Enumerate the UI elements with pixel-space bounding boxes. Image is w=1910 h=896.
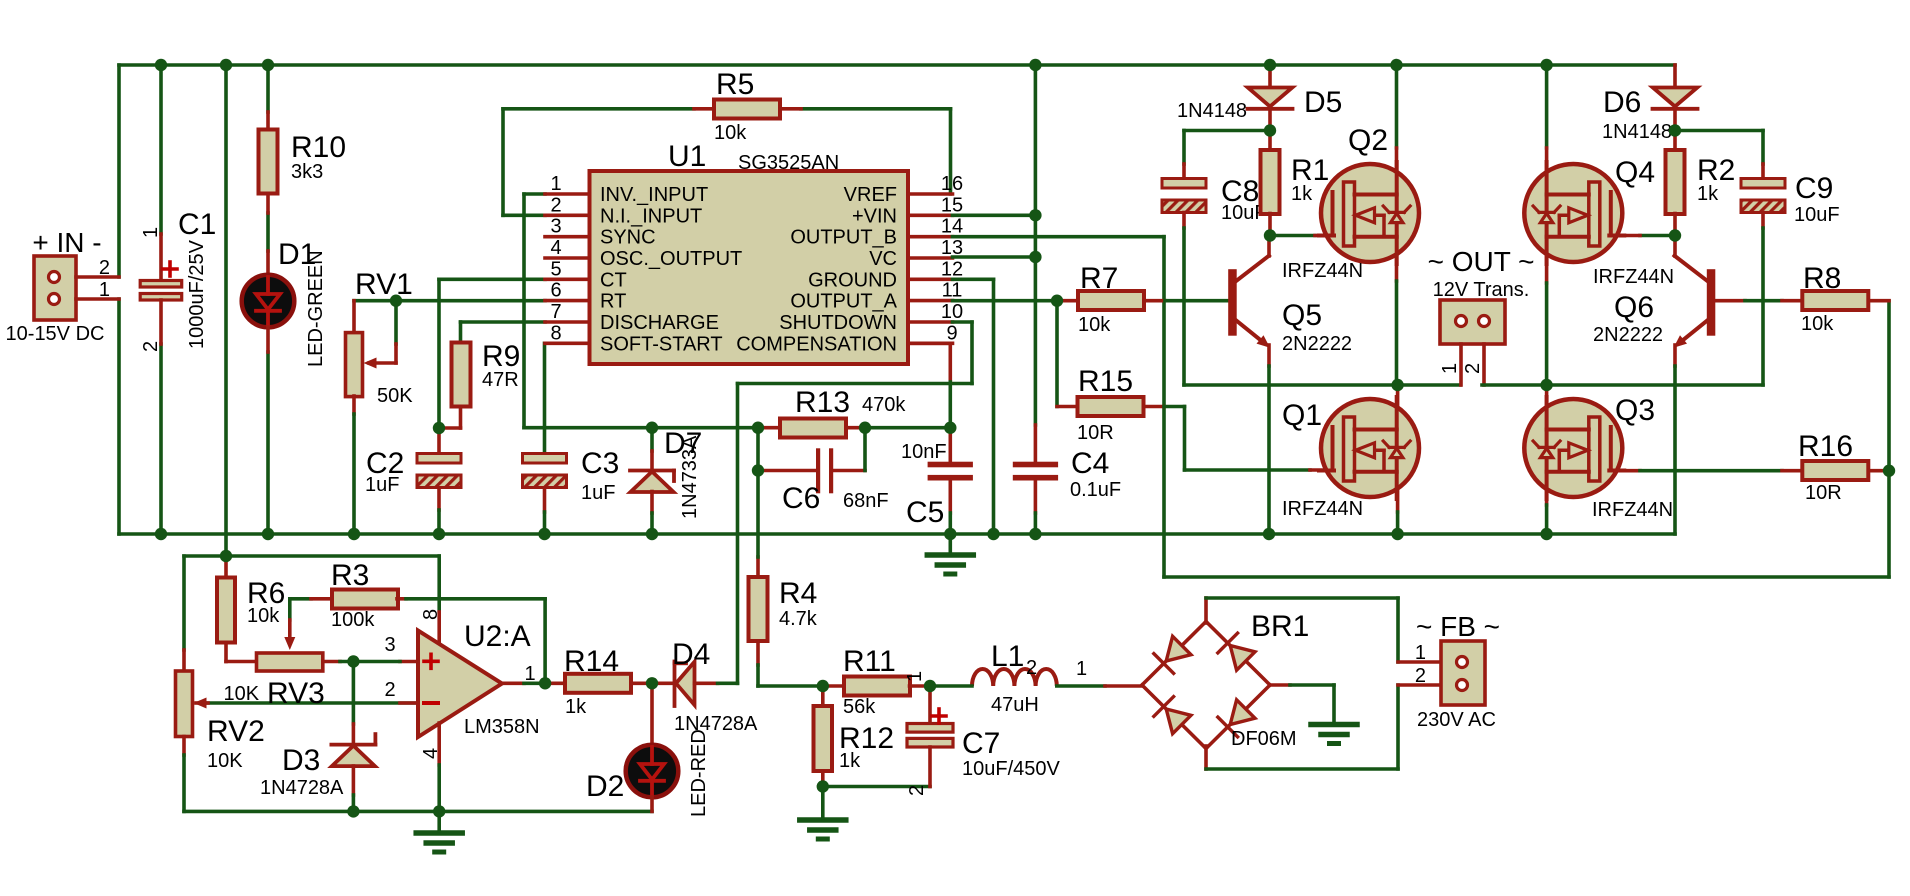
svg-text:BR1: BR1 (1251, 610, 1309, 643)
wire (801, 107, 951, 111)
wire (736, 384, 740, 684)
wire (1182, 164, 1186, 179)
svg-text:DISCHARGE: DISCHARGE (600, 312, 719, 334)
wire (1034, 481, 1038, 514)
wire (502, 681, 524, 685)
wire (543, 489, 547, 512)
wire (1290, 683, 1334, 687)
svg-text:14: 14 (941, 216, 963, 238)
wire (758, 426, 780, 430)
wire (437, 489, 441, 510)
wire (288, 599, 292, 620)
wire (352, 724, 356, 745)
wire (821, 787, 825, 819)
junction (347, 655, 359, 667)
wire (437, 723, 441, 765)
svg-text:D6: D6 (1603, 86, 1641, 119)
svg-text:1: 1 (1439, 363, 1461, 374)
RV3 wiper arrow (284, 637, 295, 650)
junction (1669, 229, 1681, 241)
wire (756, 471, 760, 558)
ground at BR1 (1311, 725, 1357, 744)
wire (1057, 299, 1078, 303)
wire (694, 107, 714, 111)
wire (543, 343, 547, 454)
svg-text:1N4728A: 1N4728A (674, 713, 758, 735)
wire (1482, 344, 1486, 385)
svg-text:1: 1 (1076, 658, 1087, 680)
wire (821, 686, 825, 706)
junction (155, 528, 167, 540)
resistor R6 (217, 578, 235, 643)
wire (437, 612, 441, 645)
wire (501, 109, 505, 216)
RV1 wiper arrow (364, 358, 377, 369)
wire (1545, 148, 1549, 283)
svg-text:U2:A: U2:A (464, 620, 531, 653)
svg-text:10-15V DC: 10-15V DC (6, 323, 105, 345)
wire (1183, 407, 1187, 471)
junction (262, 528, 274, 540)
plus mark C1 (163, 267, 177, 271)
junction (390, 295, 402, 307)
junction (1029, 251, 1041, 263)
svg-text:10: 10 (941, 301, 963, 323)
wire lower ground rail (184, 810, 652, 814)
svg-text:RT: RT (600, 291, 626, 313)
svg-text:2N2222: 2N2222 (1282, 333, 1352, 355)
wire (846, 426, 865, 430)
wire (953, 320, 973, 324)
wire (352, 766, 356, 795)
MOSFET Q3 (1524, 397, 1624, 499)
svg-text:56k: 56k (843, 696, 876, 718)
wire (948, 513, 952, 534)
wire (1761, 213, 1765, 229)
junction (539, 677, 551, 689)
junction (433, 422, 445, 434)
wire (758, 469, 816, 473)
wire (823, 684, 844, 688)
U1 pin 8 lead (545, 341, 590, 345)
svg-text:1uF: 1uF (365, 474, 399, 496)
wire (948, 343, 952, 382)
svg-text:R11: R11 (843, 645, 896, 678)
wire (1268, 214, 1272, 236)
resistor R4 (749, 577, 768, 641)
LED D1 (242, 275, 295, 328)
junction (646, 422, 658, 434)
wire (182, 755, 186, 811)
svg-text:C6: C6 (782, 482, 820, 515)
svg-text:1uF: 1uF (581, 482, 615, 504)
junction (1264, 229, 1276, 241)
wire (1396, 685, 1400, 769)
resistor R3 (332, 590, 398, 609)
wire (1267, 345, 1271, 366)
wire (1545, 505, 1549, 534)
junction (347, 805, 359, 817)
wire (1611, 234, 1640, 238)
wire (524, 681, 545, 685)
junction (1029, 209, 1041, 221)
svg-text:IRFZ44N: IRFZ44N (1593, 266, 1674, 288)
junction (1029, 59, 1041, 71)
wire (1184, 383, 1460, 387)
wire (1673, 109, 1677, 131)
svg-text:RV3: RV3 (267, 677, 325, 710)
potentiometer RV1 (346, 333, 363, 397)
wire (159, 65, 163, 234)
wire (288, 620, 292, 641)
wire (266, 65, 270, 112)
wire (1268, 109, 1272, 131)
wire (1673, 65, 1677, 88)
wire (1270, 683, 1290, 687)
junction (262, 59, 274, 71)
svg-text:2: 2 (906, 785, 928, 796)
svg-text:IRFZ44N: IRFZ44N (1282, 498, 1363, 520)
wire (503, 214, 545, 218)
wire (1782, 299, 1802, 303)
wire (1268, 131, 1272, 151)
wire (266, 194, 270, 214)
wire (1315, 234, 1334, 238)
U1 pin 11 lead (908, 299, 953, 303)
BR1 diode top-left (1166, 636, 1191, 661)
wire (821, 771, 825, 787)
resistor R16 (1802, 461, 1868, 480)
svg-text:10K: 10K (224, 683, 260, 705)
wire (758, 684, 823, 688)
wire (1395, 148, 1399, 281)
wire (1673, 366, 1677, 534)
svg-text:10nF: 10nF (901, 441, 947, 463)
wire (1206, 767, 1398, 771)
svg-text:R5: R5 (716, 68, 754, 101)
svg-text:1N4148: 1N4148 (1602, 121, 1672, 143)
wire (650, 428, 654, 451)
wire (406, 597, 545, 601)
MOSFET Q2 (1319, 162, 1419, 264)
U1 pin 7 lead (545, 320, 590, 324)
wire (1396, 385, 1400, 512)
resistor R5 (714, 100, 780, 119)
wire (1206, 596, 1398, 600)
junction (348, 528, 360, 540)
wire (1185, 468, 1311, 472)
svg-text:2: 2 (140, 341, 162, 352)
svg-text:12V Trans.: 12V Trans. (1433, 279, 1530, 301)
svg-text:1: 1 (550, 173, 561, 195)
wire (461, 320, 546, 324)
svg-text:5: 5 (550, 258, 561, 280)
svg-text:Q2: Q2 (1348, 124, 1388, 157)
wire (908, 341, 950, 345)
junction (924, 680, 936, 692)
capacitor C2 (417, 454, 461, 488)
op IC U1 SG3525AN body (590, 171, 909, 364)
svg-text:LM358N: LM358N (464, 716, 540, 738)
wire (650, 513, 654, 534)
wire (948, 481, 952, 514)
svg-text:2: 2 (1026, 657, 1037, 679)
wire (224, 65, 228, 556)
MOSFET Q1 (1319, 397, 1419, 499)
wire (1144, 405, 1165, 409)
wire (823, 785, 930, 789)
wire (1395, 65, 1399, 148)
junction (433, 805, 445, 817)
svg-text:68nF: 68nF (843, 490, 889, 512)
junction (1540, 59, 1552, 71)
svg-text:SG3525AN: SG3525AN (738, 152, 839, 174)
wire (949, 109, 953, 194)
junction (1391, 528, 1403, 540)
wire (1105, 684, 1142, 688)
wire (1716, 299, 1746, 303)
svg-text:SHUTDOWN: SHUTDOWN (779, 312, 897, 334)
wire (1673, 214, 1677, 236)
wire ground rail (119, 532, 1675, 536)
wire (1267, 236, 1271, 257)
wire (1332, 685, 1336, 723)
wire (910, 684, 931, 688)
wire (353, 660, 400, 664)
svg-text:1: 1 (524, 663, 535, 685)
connector + IN - (34, 256, 76, 320)
junction (1540, 528, 1552, 540)
wire (117, 65, 121, 277)
wire (437, 556, 441, 612)
junction (155, 59, 167, 71)
svg-text:L1: L1 (991, 640, 1024, 673)
svg-text:OUTPUT_A: OUTPUT_A (790, 291, 897, 313)
wire (928, 686, 932, 724)
svg-text:Q4: Q4 (1615, 156, 1655, 189)
wire (224, 556, 228, 578)
svg-text:Q3: Q3 (1615, 394, 1655, 427)
wire (437, 811, 441, 831)
junction (646, 528, 658, 540)
capacitor C6 (816, 448, 820, 493)
junction (1029, 528, 1041, 540)
svg-text:10k: 10k (247, 605, 280, 627)
wire (633, 681, 653, 685)
ground below C5 (927, 555, 973, 574)
svg-text:IRFZ44N: IRFZ44N (1282, 260, 1363, 282)
junction (817, 680, 829, 692)
wire (1398, 660, 1441, 664)
wire (352, 301, 356, 333)
resistor R13 (780, 419, 846, 438)
svg-text:SYNC: SYNC (600, 227, 656, 249)
ground below R12 (800, 820, 846, 839)
capacitor C4 (1013, 462, 1058, 468)
wire (340, 660, 353, 664)
U1 pin 16 lead (908, 192, 953, 196)
wire (1144, 299, 1165, 303)
wire (1164, 575, 1889, 579)
junction (433, 528, 445, 540)
svg-text:VREF: VREF (844, 184, 897, 206)
svg-text:LED-RED: LED-RED (688, 729, 710, 817)
svg-text:C3: C3 (581, 447, 619, 480)
wire (1761, 164, 1765, 179)
wire (1673, 131, 1677, 151)
junction (1883, 465, 1895, 477)
svg-text:VC: VC (869, 248, 897, 270)
wire (650, 797, 654, 811)
wire (833, 469, 865, 473)
svg-text:3: 3 (550, 216, 561, 238)
junction (987, 528, 999, 540)
svg-text:D3: D3 (282, 744, 320, 777)
wire (400, 660, 418, 664)
wire (738, 382, 973, 386)
svg-text:R16: R16 (1798, 430, 1853, 463)
wire (159, 234, 163, 281)
wire (756, 557, 760, 577)
wire (953, 235, 1165, 239)
connector ~ FB ~ (1441, 641, 1485, 705)
wire (1162, 237, 1166, 577)
svg-text:16: 16 (941, 173, 963, 195)
capacitor C7 (907, 724, 953, 748)
inductor L1 (972, 669, 1057, 686)
svg-text:15: 15 (941, 194, 963, 216)
resistor R9 (452, 343, 471, 407)
svg-text:4: 4 (420, 748, 442, 759)
capacitor C9 (1741, 179, 1785, 213)
svg-text:47R: 47R (482, 369, 519, 391)
wire (1459, 344, 1463, 385)
svg-text:D5: D5 (1304, 86, 1342, 119)
junction (752, 464, 764, 476)
svg-text:COMPENSATION: COMPENSATION (736, 333, 897, 355)
wire (1310, 468, 1334, 472)
zener D4 (675, 662, 695, 707)
wire (76, 275, 119, 279)
svg-text:R3: R3 (331, 559, 369, 592)
wire (1204, 746, 1208, 769)
wire (311, 597, 332, 601)
wire (397, 597, 406, 601)
svg-text:10k: 10k (714, 122, 747, 144)
connector ~ OUT ~ (1440, 300, 1505, 344)
U1 pin 5 lead (545, 277, 590, 281)
svg-text:C7: C7 (962, 727, 1000, 760)
U1 pin 1 lead (545, 192, 590, 196)
svg-text:1: 1 (99, 279, 110, 301)
resistor R11 (844, 677, 910, 696)
wire (1782, 469, 1802, 473)
wire (756, 641, 760, 665)
svg-text:INV._INPUT: INV._INPUT (600, 184, 708, 206)
wire (718, 681, 738, 685)
junction (220, 550, 232, 562)
wire (1482, 383, 1763, 387)
svg-text:CT: CT (600, 269, 627, 291)
svg-text:2: 2 (550, 194, 561, 216)
resistor R12 (814, 706, 833, 771)
wire (290, 597, 311, 601)
wire (524, 192, 545, 196)
svg-text:4: 4 (550, 237, 561, 259)
svg-text:D4: D4 (672, 638, 710, 671)
junction (1669, 124, 1681, 136)
wire (437, 279, 441, 428)
svg-text:GROUND: GROUND (808, 269, 897, 291)
wire (1398, 683, 1441, 687)
svg-text:DF06M: DF06M (1231, 728, 1297, 750)
wire (1745, 299, 1782, 303)
junction (1540, 379, 1552, 391)
wire (756, 428, 760, 471)
wire (1545, 283, 1549, 385)
wire (953, 214, 1036, 218)
wire (953, 299, 1058, 303)
wire (782, 107, 801, 111)
LED D2 (626, 745, 679, 798)
RV2 wiper arrow (194, 698, 207, 709)
wire (76, 297, 119, 301)
wire (439, 277, 545, 281)
ground below U2:A (416, 833, 462, 852)
junction (944, 528, 956, 540)
wire (756, 665, 760, 686)
svg-text:9: 9 (946, 322, 957, 344)
wire (459, 407, 463, 429)
wire (1267, 366, 1271, 534)
svg-text:C1: C1 (178, 208, 216, 241)
wire (184, 554, 439, 558)
wire (543, 512, 547, 534)
wire (437, 428, 441, 454)
wire (992, 279, 996, 534)
wire (1164, 405, 1185, 409)
junction (646, 677, 658, 689)
svg-text:R14: R14 (564, 645, 619, 678)
wire (1673, 236, 1677, 257)
wire (1204, 598, 1208, 623)
junction (752, 422, 764, 434)
svg-text:R15: R15 (1078, 365, 1133, 398)
wire (695, 681, 718, 685)
svg-text:1: 1 (140, 227, 162, 238)
svg-text:RV1: RV1 (355, 268, 413, 301)
transistor Q5 (1228, 256, 1270, 348)
U1 pin 15 lead (908, 214, 953, 218)
svg-text:~ OUT ~: ~ OUT ~ (1428, 246, 1535, 277)
resistor R8 (1802, 291, 1868, 310)
junction (1263, 528, 1275, 540)
wire (394, 344, 398, 363)
wire (266, 327, 270, 352)
bridge rectifier BR1 frame (1142, 622, 1270, 749)
U1 pin 2 lead (545, 214, 590, 218)
wire (650, 451, 654, 471)
wire (1268, 65, 1272, 88)
svg-text:2: 2 (1462, 363, 1484, 374)
svg-text:1k: 1k (1291, 183, 1313, 205)
svg-text:47uH: 47uH (991, 694, 1039, 716)
wire (652, 681, 675, 685)
wire (1761, 131, 1765, 165)
wire (865, 426, 950, 430)
wire (1761, 228, 1765, 385)
BR1 diode top-right (1230, 646, 1255, 671)
